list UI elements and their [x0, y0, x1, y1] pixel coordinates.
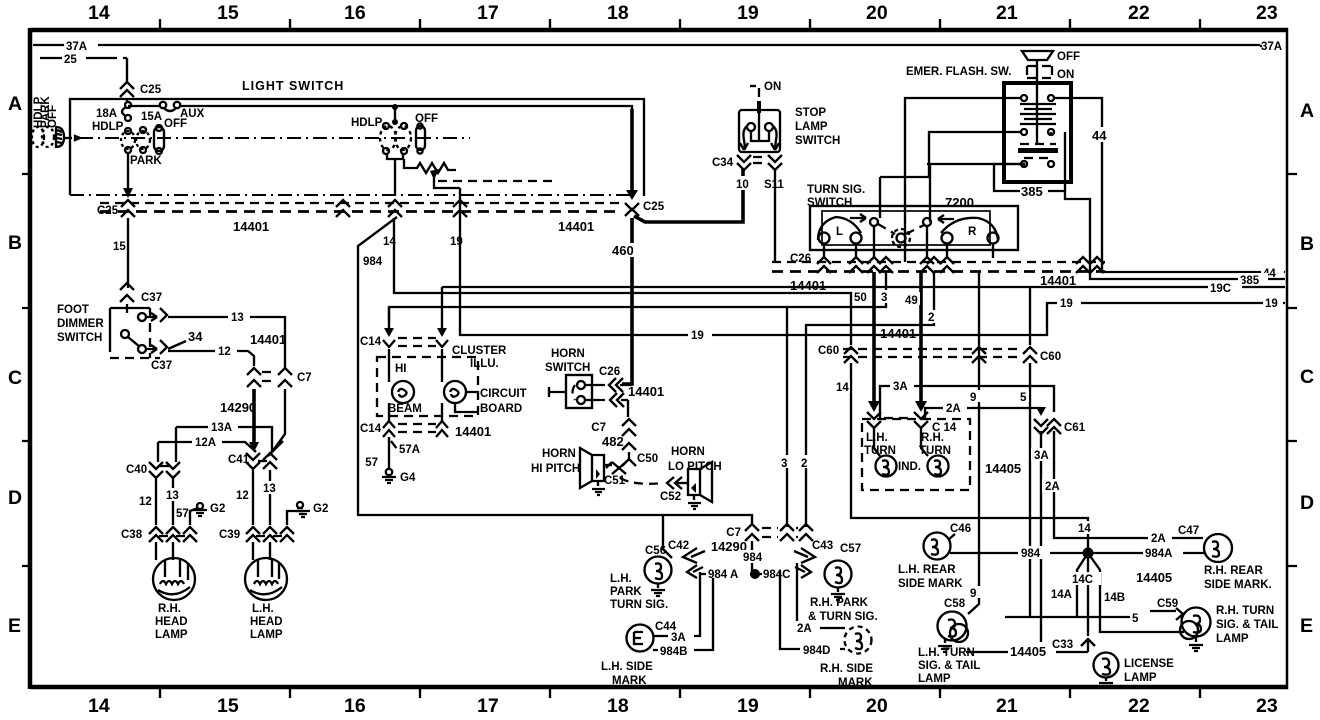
svg-text:2A: 2A	[1151, 533, 1166, 545]
svg-text:16: 16	[344, 2, 366, 24]
svg-text:C56: C56	[645, 545, 666, 557]
svg-text:14405: 14405	[1010, 644, 1046, 659]
svg-text:SIG. & TAIL: SIG. & TAIL	[1216, 619, 1278, 631]
svg-text:44: 44	[1092, 128, 1107, 143]
connector C51	[604, 462, 626, 487]
wire 2 upper run	[806, 272, 934, 527]
svg-text:C7: C7	[726, 527, 741, 539]
svg-text:HDLP: HDLP	[351, 117, 383, 129]
svg-text:19: 19	[737, 695, 759, 717]
svg-text:C14: C14	[360, 423, 382, 435]
left zone letters	[8, 93, 22, 637]
svg-text:15: 15	[217, 2, 239, 24]
svg-text:17: 17	[477, 2, 499, 24]
svg-text:HORN: HORN	[551, 348, 585, 360]
svg-text:19: 19	[691, 330, 704, 342]
emer flasher knob OFF	[1022, 51, 1080, 143]
headlamp switch HDLP/OFF second	[351, 104, 438, 154]
svg-text:3: 3	[781, 458, 787, 470]
wire 460 drop inside box	[630, 109, 634, 192]
svg-text:14401: 14401	[455, 424, 491, 439]
svg-text:C50: C50	[637, 453, 658, 465]
svg-text:14A: 14A	[1051, 589, 1072, 601]
wire 34 pointer	[168, 329, 203, 349]
turn signal switch	[807, 184, 1018, 250]
svg-text:LICENSE: LICENSE	[1124, 658, 1174, 670]
RH side mark lamp	[780, 563, 873, 689]
svg-text:BOARD: BOARD	[480, 403, 522, 415]
light switch box	[70, 99, 644, 196]
svg-text:C26: C26	[599, 366, 620, 378]
svg-text:14: 14	[383, 236, 396, 248]
svg-text:25: 25	[64, 54, 77, 66]
svg-text:21: 21	[996, 2, 1018, 24]
svg-text:LO PITCH: LO PITCH	[668, 461, 722, 473]
svg-text:R: R	[968, 226, 977, 238]
frame zone ticks	[22, 174, 1297, 566]
svg-text:R.H. PARK: R.H. PARK	[810, 597, 869, 609]
svg-text:C41: C41	[228, 454, 250, 466]
RH rear side marker	[1204, 534, 1272, 591]
svg-text:2: 2	[801, 458, 807, 470]
svg-text:ON: ON	[764, 81, 781, 93]
svg-text:CIRCUIT: CIRCUIT	[480, 388, 527, 400]
license lamp	[1094, 653, 1175, 687]
svg-text:C: C	[8, 367, 22, 389]
svg-text:482: 482	[602, 434, 624, 449]
svg-text:C61: C61	[1064, 422, 1086, 434]
svg-text:14401: 14401	[880, 326, 916, 341]
wire 19 labels	[688, 296, 1283, 342]
connector C26 horn	[599, 366, 664, 407]
connector C7 482 C50	[591, 419, 658, 466]
svg-text:L: L	[836, 226, 843, 238]
connector C33	[1052, 639, 1095, 652]
svg-text:385: 385	[1240, 275, 1260, 287]
svg-text:HDLP: HDLP	[92, 121, 124, 133]
svg-text:C40: C40	[126, 464, 147, 476]
svg-text:HEAD: HEAD	[250, 616, 283, 628]
svg-text:SIDE MARK.: SIDE MARK.	[1204, 579, 1272, 591]
svg-text:23: 23	[1256, 695, 1278, 717]
wire 984A	[1093, 546, 1205, 560]
svg-text:HI: HI	[395, 363, 407, 375]
svg-text:14: 14	[836, 382, 849, 394]
ground G4	[382, 469, 416, 484]
svg-text:984: 984	[743, 552, 763, 564]
wire park drop	[127, 153, 129, 190]
svg-text:18: 18	[607, 2, 629, 24]
wire 2A lower	[1042, 431, 1203, 538]
svg-text:14401: 14401	[628, 384, 664, 399]
svg-text:18A: 18A	[96, 108, 117, 120]
svg-text:STOP: STOP	[795, 107, 826, 119]
svg-text:14: 14	[88, 2, 110, 24]
svg-text:13: 13	[231, 312, 244, 324]
svg-text:C37: C37	[151, 360, 172, 372]
svg-text:C37: C37	[141, 292, 162, 304]
svg-text:ILLU.: ILLU.	[470, 358, 499, 370]
svg-text:C59: C59	[1157, 598, 1178, 610]
svg-text:LAMP: LAMP	[1216, 633, 1249, 645]
svg-text:C47: C47	[1178, 525, 1199, 537]
svg-text:L.H. SIDE: L.H. SIDE	[601, 661, 653, 673]
svg-text:E: E	[1300, 615, 1313, 637]
ground G2 right	[287, 502, 328, 525]
svg-text:R.H. REAR: R.H. REAR	[1204, 565, 1263, 577]
svg-text:C26: C26	[790, 253, 811, 265]
svg-text:HORN: HORN	[542, 448, 576, 460]
svg-text:TURN SIG.: TURN SIG.	[807, 184, 865, 196]
svg-text:3A: 3A	[893, 381, 908, 393]
rheostat resistor	[404, 159, 460, 188]
mechanical link dash-dot line	[79, 137, 470, 139]
cam output stubs	[824, 226, 993, 258]
svg-text:5: 5	[1132, 613, 1139, 625]
svg-text:14B: 14B	[1104, 592, 1125, 604]
svg-text:SWITCH: SWITCH	[807, 197, 852, 209]
svg-text:20: 20	[866, 2, 888, 24]
wire pivot feed	[880, 164, 994, 218]
foot dimmer switch	[57, 283, 172, 372]
svg-text:14401: 14401	[790, 278, 826, 293]
svg-text:14405: 14405	[1136, 570, 1172, 585]
wire 2A rear label	[1148, 525, 1199, 545]
svg-text:E: E	[8, 615, 21, 637]
right cam R	[938, 215, 999, 244]
svg-text:C52: C52	[660, 491, 681, 503]
wire 14290	[220, 389, 259, 452]
wire 15	[113, 218, 128, 288]
bottom ruler numbers	[88, 695, 1278, 717]
wire 14	[383, 218, 851, 345]
svg-text:5: 5	[1020, 392, 1027, 404]
connector C40	[126, 462, 180, 478]
svg-text:D: D	[1300, 492, 1314, 514]
connector C7 lower bus	[711, 524, 813, 554]
svg-text:LAMP: LAMP	[795, 121, 828, 133]
svg-text:50: 50	[854, 292, 867, 304]
bottom ruler ticks	[160, 689, 1200, 698]
wire 3A lower	[1031, 431, 1055, 652]
svg-text:385: 385	[1021, 184, 1043, 199]
horn hi pitch	[531, 448, 612, 495]
wire 50	[853, 272, 880, 412]
svg-text:37A: 37A	[66, 41, 87, 53]
dashed wire to lo pitch	[620, 478, 664, 484]
svg-text:OFF: OFF	[47, 105, 59, 128]
right zone letters	[1300, 100, 1314, 637]
svg-text:G2: G2	[210, 503, 225, 515]
light switch rotary contacts	[92, 118, 187, 167]
connector C25 top chevrons	[120, 82, 162, 97]
svg-text:984: 984	[363, 256, 383, 268]
svg-text:37A: 37A	[1261, 41, 1282, 53]
svg-text:C33: C33	[1052, 639, 1073, 651]
wire 3 mid drop	[786, 307, 788, 527]
svg-text:12: 12	[139, 496, 152, 508]
svg-text:L.H.: L.H.	[610, 573, 632, 585]
svg-text:OFF: OFF	[1057, 51, 1080, 63]
svg-text:34: 34	[188, 329, 203, 344]
svg-text:19: 19	[1060, 298, 1073, 310]
svg-text:CLUSTER: CLUSTER	[452, 345, 507, 357]
svg-text:15: 15	[217, 695, 239, 717]
svg-text:C58: C58	[944, 598, 966, 610]
svg-text:14C: 14C	[1072, 574, 1093, 586]
svg-text:PARK: PARK	[130, 155, 162, 167]
wire flasher feed left	[905, 98, 1021, 262]
wire 3A cluster	[880, 379, 1054, 419]
svg-text:49: 49	[905, 295, 918, 307]
junction 14 fork	[1077, 521, 1184, 636]
svg-text:HEAD: HEAD	[155, 616, 188, 628]
wire 460	[612, 218, 640, 384]
svg-text:13: 13	[166, 490, 179, 502]
connector C42 C56	[645, 540, 705, 578]
svg-text:19: 19	[737, 2, 759, 24]
wire 19 drop from rheostat	[459, 188, 461, 200]
svg-text:G4: G4	[400, 472, 416, 484]
LH headlamp wires 12 13	[234, 470, 278, 525]
wire 13	[168, 310, 285, 368]
svg-text:22: 22	[1128, 2, 1150, 24]
svg-text:C14: C14	[360, 336, 382, 348]
svg-text:MARK: MARK	[612, 675, 647, 687]
LH rear side marker	[898, 523, 971, 590]
svg-text:18: 18	[607, 695, 629, 717]
svg-text:SWITCH: SWITCH	[57, 332, 102, 344]
wire 37A	[33, 41, 1288, 53]
wire turn sig feed from flasher	[927, 164, 1024, 222]
svg-text:984C: 984C	[763, 569, 791, 581]
svg-text:C43: C43	[812, 540, 833, 552]
svg-text:57: 57	[176, 508, 189, 520]
cluster connector C14 mid	[867, 412, 957, 434]
svg-text:2A: 2A	[1045, 481, 1060, 493]
svg-text:19C: 19C	[1210, 283, 1231, 295]
RH head lamp	[153, 542, 195, 641]
connector C43 C57	[794, 540, 861, 578]
wire S11	[763, 168, 790, 262]
ground G2 left with wire 57	[176, 503, 225, 525]
svg-text:LAMP: LAMP	[1124, 672, 1157, 684]
light switch inner bus	[128, 106, 632, 109]
svg-text:984B: 984B	[660, 646, 688, 658]
svg-text:OFF: OFF	[164, 118, 187, 130]
connector C14 lower	[360, 421, 491, 439]
svg-text:23: 23	[1256, 2, 1278, 24]
LH park turn sig lamp	[610, 557, 672, 612]
svg-text:SWITCH: SWITCH	[545, 362, 590, 374]
wire flasher mid-left pin	[929, 132, 1021, 177]
svg-text:C57: C57	[840, 543, 861, 555]
svg-text:2: 2	[928, 312, 934, 324]
svg-text:C25: C25	[97, 205, 119, 217]
LH turn sig tail lamp	[918, 598, 980, 685]
connector C14 upper	[360, 287, 448, 348]
wire to horns	[627, 400, 629, 417]
svg-text:984A: 984A	[1145, 548, 1173, 560]
RH headlamp wires 12 13	[138, 478, 181, 525]
svg-text:IND.: IND.	[898, 461, 921, 473]
top ruler ticks	[160, 19, 1200, 28]
svg-text:9: 9	[970, 392, 976, 404]
center pivots	[870, 218, 931, 247]
svg-text:R.H.: R.H.	[158, 603, 181, 615]
svg-text:SWITCH: SWITCH	[795, 135, 840, 147]
svg-text:SIG. & TAIL: SIG. & TAIL	[918, 660, 980, 672]
svg-text:C39: C39	[219, 529, 240, 541]
junction 984A 984C	[700, 567, 797, 581]
svg-text:22: 22	[1128, 695, 1150, 717]
svg-text:L.H. REAR: L.H. REAR	[898, 564, 956, 576]
svg-text:G2: G2	[313, 503, 328, 515]
svg-text:DIMMER: DIMMER	[57, 318, 104, 330]
svg-text:A: A	[8, 93, 22, 115]
wire 49	[904, 272, 927, 412]
connector C41	[228, 441, 283, 469]
svg-text:FOOT: FOOT	[57, 304, 89, 316]
connector C26 bus	[772, 253, 1105, 293]
svg-text:3: 3	[881, 292, 887, 304]
svg-text:57: 57	[365, 457, 378, 469]
svg-text:984: 984	[1021, 548, 1041, 560]
svg-text:C34: C34	[712, 157, 734, 169]
svg-text:7200: 7200	[945, 195, 974, 210]
wire 13 lower segment	[272, 389, 285, 452]
connector C25 bus	[97, 200, 665, 217]
svg-text:R.H. TURN: R.H. TURN	[1216, 605, 1274, 617]
svg-text:D: D	[8, 487, 22, 509]
wire lamp bus	[966, 651, 1088, 653]
wire 5 bottom	[1005, 598, 1183, 625]
svg-text:12: 12	[236, 490, 249, 502]
svg-text:SIDE MARK: SIDE MARK	[898, 578, 963, 590]
wire 5	[1018, 363, 1030, 617]
svg-text:L.H.: L.H.	[252, 603, 274, 615]
column connector HDLP PARK OFF	[32, 96, 80, 147]
svg-text:LAMP: LAMP	[918, 673, 951, 685]
stop lamp switch	[739, 81, 840, 152]
horn switch	[545, 348, 605, 408]
svg-text:C42: C42	[668, 540, 689, 552]
svg-text:3A: 3A	[1034, 450, 1049, 462]
connector C61	[1034, 407, 1086, 434]
wire 13A	[176, 420, 272, 462]
wire 984 diagonal and vertical	[358, 217, 752, 526]
wire 19	[450, 202, 1285, 335]
RH park turn sig lamp	[808, 561, 878, 624]
wire 2A cluster	[925, 401, 1041, 419]
wire 12A	[158, 435, 256, 462]
top ruler numbers	[88, 2, 1278, 24]
svg-text:14401: 14401	[558, 219, 594, 234]
svg-text:2A: 2A	[797, 623, 812, 635]
svg-text:57A: 57A	[399, 444, 420, 456]
svg-text:20: 20	[866, 695, 888, 717]
wire 3 label	[879, 290, 892, 303]
fuse 15A AUX	[141, 102, 205, 123]
svg-text:MARK: MARK	[838, 677, 873, 689]
svg-text:C25: C25	[140, 84, 162, 96]
wire 984 below C7	[741, 541, 769, 574]
wire 25	[40, 54, 127, 82]
svg-text:LAMP: LAMP	[155, 629, 188, 641]
svg-text:L.H.: L.H.	[866, 432, 888, 444]
svg-text:HI PITCH: HI PITCH	[531, 463, 580, 475]
wire labels 3 2	[778, 455, 812, 470]
wire C60 right drop	[1029, 287, 1031, 345]
turn indicator box	[862, 419, 970, 490]
svg-text:LIGHT SWITCH: LIGHT SWITCH	[242, 79, 344, 93]
LH head lamp	[245, 542, 287, 641]
rheostat wiper dashed wire	[438, 180, 552, 182]
wire 2 label	[926, 310, 939, 323]
svg-text:C7: C7	[591, 422, 606, 434]
svg-text:12A: 12A	[195, 437, 216, 449]
wire 14 below C60	[835, 363, 1088, 549]
svg-text:9: 9	[970, 588, 976, 600]
svg-text:14401: 14401	[233, 219, 269, 234]
flasher contact bar	[1018, 144, 1058, 158]
wire 3 upper run	[389, 272, 886, 322]
svg-text:13A: 13A	[211, 422, 232, 434]
connector C52	[660, 477, 688, 503]
svg-text:12: 12	[218, 346, 231, 358]
svg-text:B: B	[1300, 233, 1314, 255]
connector C7	[247, 368, 312, 387]
flasher plates	[1020, 104, 1056, 124]
svg-text:14401: 14401	[250, 332, 286, 347]
svg-text:B: B	[8, 232, 22, 254]
wire 57A	[365, 437, 420, 470]
svg-text:10: 10	[736, 179, 749, 191]
wire 385	[994, 132, 1285, 287]
wire 984 rear	[950, 546, 1086, 560]
wire 19C	[442, 281, 1285, 295]
svg-text:R.H. SIDE: R.H. SIDE	[820, 663, 873, 675]
svg-text:21: 21	[996, 695, 1018, 717]
svg-text:BEAM: BEAM	[388, 403, 422, 415]
connector C34	[712, 155, 782, 170]
LH side mark lamp	[601, 572, 713, 687]
svg-text:PARK: PARK	[610, 586, 642, 598]
svg-text:17: 17	[477, 695, 499, 717]
RH turn sig tail lamp	[1180, 605, 1278, 651]
svg-text:C51: C51	[604, 475, 626, 487]
emer flasher switch box	[1004, 83, 1071, 182]
horn lo pitch	[668, 446, 722, 509]
svg-text:14: 14	[1078, 523, 1091, 535]
svg-text:460: 460	[612, 243, 634, 258]
cluster illumination board	[377, 345, 527, 421]
svg-text:3A: 3A	[671, 632, 686, 644]
svg-text:LAMP: LAMP	[250, 629, 283, 641]
svg-text:16: 16	[344, 695, 366, 717]
wire 12	[168, 344, 254, 366]
svg-text:C: C	[1300, 366, 1314, 388]
svg-text:13: 13	[263, 483, 276, 495]
svg-text:C46: C46	[950, 523, 971, 535]
left cam L	[818, 214, 866, 244]
svg-text:R.H.: R.H.	[921, 432, 944, 444]
svg-text:19: 19	[1265, 298, 1278, 310]
flasher pins	[1021, 95, 1054, 167]
svg-text:C60: C60	[818, 345, 839, 357]
svg-text:C25: C25	[643, 201, 665, 213]
wire 10 jog to stop lamp	[634, 168, 743, 222]
